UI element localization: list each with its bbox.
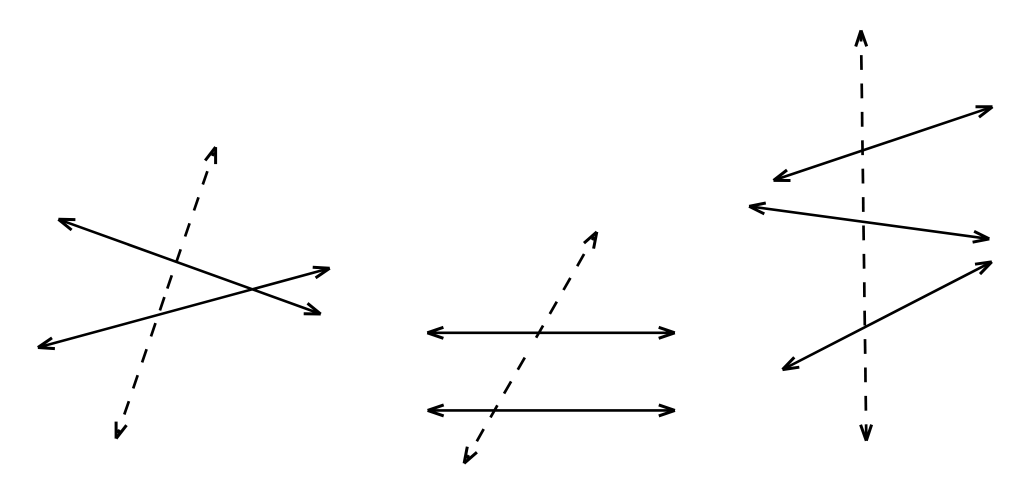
arrowhead of dashed transversal T2 (middle group) at (464,463) end <box>464 447 477 464</box>
arrowhead of line R2 (right group, middle) at (749,206) end <box>749 203 766 214</box>
arrowhead of line L2 (left group, lower-left to upper-right) at (38,348) end <box>38 338 55 349</box>
arrowhead of line R2 (right group, middle) at (989,239) end <box>973 231 990 242</box>
line R3 (right group, bottom) <box>783 262 992 370</box>
arrowhead of line R3 (right group, bottom) at (782,370) end <box>783 357 800 369</box>
arrowhead of dashed transversal T1 (left group) at (216,147) end <box>205 147 215 164</box>
parallel line M2 (middle group, bottom) <box>428 409 675 412</box>
arrowhead of parallel line M2 (middle group, bottom) at (675,410) end <box>659 405 675 416</box>
arrowhead of line L2 (left group, lower-left to upper-right) at (330,268) end <box>313 267 330 278</box>
arrowhead of dashed transversal T3 (right group, vertical) at (866,441) end <box>861 425 872 441</box>
arrowhead of parallel line M2 (middle group, bottom) at (428,410) end <box>428 405 444 416</box>
arrowhead of line R1 (right group, top) at (992,107) end <box>976 107 993 118</box>
dashed transversal T2 (middle group) <box>467 237 594 459</box>
dashed transversal T1 (left group) <box>118 152 214 433</box>
parallel line M1 (middle group, top) <box>427 331 675 334</box>
line L2 (left group, lower-left to upper-right) <box>38 268 330 347</box>
line R2 (right group, middle) <box>749 206 989 239</box>
line L1 (left group, upper-left to lower-right) <box>58 219 320 314</box>
arrowhead of parallel line M1 (middle group, top) at (675,333) end <box>659 327 675 338</box>
arrowhead of line R1 (right group, top) at (774,180) end <box>774 170 791 181</box>
arrowhead of dashed transversal T1 (left group) at (116,439) end <box>116 422 126 439</box>
arrowhead of dashed transversal T3 (right group, vertical) at (861,30) end <box>856 30 867 46</box>
arrowhead of line L1 (left group, upper-left to lower-right) at (58,219) end <box>58 219 75 230</box>
dashed transversal T3 (right group, vertical) <box>861 30 866 439</box>
line R1 (right group, top) <box>774 107 993 181</box>
arrowhead of parallel line M1 (middle group, top) at (427,333) end <box>427 327 443 338</box>
arrowhead of dashed transversal T2 (middle group) at (597,232) end <box>584 232 597 249</box>
arrowhead of line L1 (left group, upper-left to lower-right) at (321,314) end <box>304 303 321 314</box>
arrowhead of line R3 (right group, bottom) at (992,262) end <box>975 262 992 274</box>
